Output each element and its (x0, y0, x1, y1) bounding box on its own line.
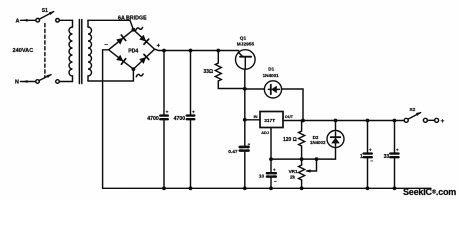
wire VR1 wiper (305, 159, 317, 173)
svg-text:33Ω: 33Ω (203, 69, 213, 75)
wire bridge plus to rail (155, 49, 239, 50)
svg-text:+: + (192, 109, 195, 114)
terminal A (16, 18, 36, 24)
svg-text:+: + (369, 147, 372, 152)
svg-text:D1: D1 (268, 67, 274, 72)
svg-text:240VAC: 240VAC (13, 48, 34, 54)
node wiper/D2 junction (315, 157, 319, 161)
svg-text:S2: S2 (409, 107, 415, 113)
wire ADJ node line (271, 158, 317, 160)
node cap C1 top (junction dot) (162, 49, 166, 53)
wire ground rail (103, 187, 431, 189)
node cap C2 top (junction dot) (189, 49, 193, 53)
node D1/120ohm junction (301, 119, 305, 123)
capacitor 10uF (259, 167, 277, 184)
transformer T1 primary winding (69, 20, 73, 81)
node AC top (junction dot) (132, 28, 136, 32)
svg-text:IN: IN (254, 114, 258, 119)
capacitor C2 4700uF (174, 51, 195, 189)
node cap 33uF top junction (393, 119, 397, 123)
diode D2 1N4002 (327, 121, 344, 148)
terminal N (15, 80, 35, 86)
wire Q1 collector down (244, 69, 246, 188)
switch S1 pole 2 (36, 74, 60, 83)
potentiometer VR1 2k (289, 159, 305, 188)
node ADJ line left junction (269, 157, 273, 161)
wire ADJ pin down (270, 128, 272, 189)
resistor 33 ohm (203, 51, 244, 89)
bridge diode bottom-right (139, 54, 149, 64)
svg-text:ADJ: ADJ (261, 130, 269, 135)
node ground 1uF (366, 186, 370, 190)
svg-text:+: + (441, 118, 445, 125)
node D2 top junction (334, 119, 338, 123)
switch S1 gang link (dashed) (44, 24, 46, 78)
svg-text:4700: 4700 (147, 116, 159, 122)
svg-text:4700: 4700 (174, 116, 186, 122)
capacitor 0.47uF (228, 142, 250, 155)
svg-text:+: + (273, 167, 276, 172)
wire D1 anode to OUT rail (282, 89, 303, 121)
label ~ top (136, 27, 143, 30)
transformer T1 secondary winding (88, 20, 92, 81)
node ground C2 (189, 186, 193, 190)
node 317 IN junction (243, 118, 247, 122)
capacitor C1 4700uF (147, 51, 168, 189)
bridge diode bottom-left (116, 55, 126, 65)
switch S2 (404, 112, 421, 122)
node resistor 33 top (junction dot) (216, 49, 220, 53)
svg-text:1N4001: 1N4001 (263, 73, 280, 78)
svg-text:PD4: PD4 (128, 49, 138, 55)
svg-text:10: 10 (259, 173, 265, 179)
svg-text:−: − (104, 42, 108, 48)
wire bridge minus to ground rail (103, 50, 109, 189)
node ground 0.47uF line (243, 186, 247, 190)
node ground 10uF line (269, 186, 273, 190)
node 120ohm/VR1 junction (300, 157, 304, 161)
resistor 120 ohm (283, 121, 305, 160)
svg-text:−: − (370, 158, 373, 163)
wire primary bottom lead (59, 81, 72, 83)
svg-text:−: − (274, 179, 277, 184)
bridge rectifier PD4 diamond (109, 30, 155, 69)
svg-text:0.47: 0.47 (228, 149, 238, 155)
capacitor 1uF (360, 121, 373, 189)
svg-text:N: N (15, 80, 19, 86)
svg-text:S1: S1 (42, 8, 48, 14)
svg-text:1: 1 (360, 154, 363, 160)
svg-text:+: + (157, 43, 161, 49)
svg-text:120 Ω: 120 Ω (283, 137, 297, 143)
output terminal pair (423, 118, 438, 122)
wire OUT rail (283, 120, 404, 122)
svg-text:1N4002: 1N4002 (310, 140, 326, 145)
wire D2 bottom to ADJ node (317, 148, 336, 160)
switch S1 pole 1 (36, 11, 59, 22)
svg-text:2k: 2k (290, 174, 296, 179)
svg-text:+: + (396, 147, 399, 152)
diode D1 1N4001 (245, 81, 282, 98)
node ground VR1 (300, 186, 304, 190)
svg-text:+: + (166, 109, 169, 114)
svg-text:Q1: Q1 (240, 36, 247, 42)
wire secondary top to bridge (88, 20, 133, 29)
node cap 1uF top junction (366, 119, 370, 123)
svg-text:MJ2955: MJ2955 (237, 42, 255, 48)
svg-text:317T: 317T (264, 118, 275, 124)
capacitor 33uF (384, 121, 399, 189)
svg-text:6A BRIDGE: 6A BRIDGE (118, 15, 147, 21)
node ground C1 (162, 186, 166, 190)
svg-text:A: A (16, 18, 20, 24)
node ground 33uF (393, 186, 397, 190)
node AC bottom (junction dot) (132, 67, 136, 71)
regulator U1 317T (260, 112, 283, 128)
transformer T1 core (79, 20, 81, 84)
node 33ohm / D1 junction (243, 87, 247, 91)
bridge diode top-right (139, 35, 149, 45)
bridge diode top-left (116, 35, 126, 45)
wire secondary bottom to bridge (88, 69, 133, 81)
svg-text:OUT: OUT (285, 114, 294, 119)
transistor Q1 MJ2955 (236, 50, 256, 70)
wire primary top lead (59, 19, 72, 21)
svg-text:+: + (248, 142, 251, 147)
svg-text:33: 33 (384, 154, 390, 160)
wire 317 IN lead (245, 119, 260, 121)
label ~ bottom (136, 74, 143, 77)
